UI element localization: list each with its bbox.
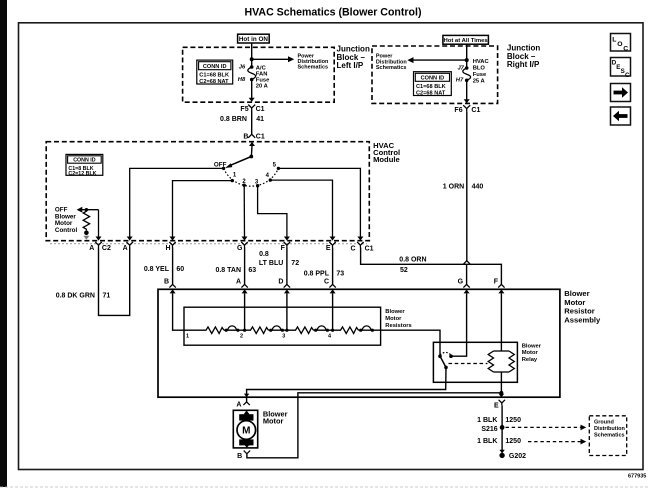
splice of ORN feed (chevron)	[463, 261, 470, 265]
wire E to ground	[501, 405, 503, 453]
svg-text:Right I/P: Right I/P	[507, 60, 540, 69]
switch dotted arc	[224, 168, 279, 186]
svg-text:Motor: Motor	[522, 350, 539, 356]
svg-text:3: 3	[282, 334, 285, 340]
svg-text:G: G	[237, 245, 243, 252]
module terminal connectors (Y symbols)	[95, 242, 363, 248]
label 1 BLK 1250 (upper)	[477, 417, 521, 424]
exit arrow E through assembly bottom	[499, 394, 505, 398]
wire contact 2 to terminal G	[243, 185, 245, 237]
svg-text:Resistor: Resistor	[564, 307, 594, 316]
svg-text:Relay: Relay	[522, 357, 538, 363]
svg-text:63: 63	[248, 267, 256, 274]
relay contact dotted travel arc	[440, 352, 451, 355]
Hot in ON box	[238, 34, 270, 43]
svg-text:0.8 TAN: 0.8 TAN	[215, 267, 241, 274]
motor M1 box	[233, 410, 257, 448]
label 1 BLK 1250 (lower)	[477, 438, 521, 445]
resistor pack box	[184, 307, 381, 345]
motor entry arrow at top edge	[244, 410, 250, 414]
relay NO contact dot	[449, 354, 453, 358]
wire splice down to assembly G	[466, 264, 468, 284]
wire C terminal to chain node 4	[332, 293, 334, 330]
scan edge black strip	[0, 0, 7, 487]
svg-text:CONN ID: CONN ID	[421, 76, 445, 82]
blower switch arm (points to OFF)	[225, 157, 251, 169]
svg-text:73: 73	[336, 270, 344, 277]
svg-text:E: E	[326, 245, 331, 252]
svg-text:1 ORN: 1 ORN	[443, 184, 464, 191]
svg-text:440: 440	[472, 184, 484, 191]
svg-text:60: 60	[176, 266, 184, 273]
resistor end dot	[84, 231, 89, 236]
svg-text:B: B	[243, 133, 248, 140]
svg-text:Ground: Ground	[594, 419, 614, 425]
svg-text:0.8: 0.8	[259, 251, 269, 258]
svg-text:C1: C1	[471, 107, 480, 114]
wire contact 3 to terminal F	[258, 186, 287, 238]
relay NC contact dot	[438, 354, 442, 358]
svg-text:A: A	[89, 245, 94, 252]
svg-text:HVAC Schematics (Blower Contro: HVAC Schematics (Blower Control)	[245, 6, 422, 18]
svg-text:C2=68 NAT: C2=68 NAT	[416, 90, 446, 96]
junction dot node 4	[331, 329, 334, 332]
resistor R3 (zigzag + limiter)	[287, 326, 333, 334]
wire chain end to relay NC contact	[381, 330, 440, 356]
svg-text:S216: S216	[481, 426, 497, 433]
relay mechanical dashed link	[449, 363, 488, 365]
svg-text:O: O	[617, 41, 622, 48]
svg-text:J7: J7	[457, 65, 464, 71]
svg-text:Schematics: Schematics	[298, 65, 329, 71]
wire A terminal to chain node 2	[244, 293, 246, 330]
node dot on sense branch	[85, 208, 88, 211]
motor exit arrow at bottom edge	[244, 444, 250, 448]
svg-text:H: H	[165, 245, 170, 252]
splice S216	[500, 425, 505, 430]
fuse A/C FAN 20A	[248, 65, 256, 81]
wire B terminal into resistor chain	[173, 293, 184, 330]
label 0.8 TAN 63	[215, 267, 256, 274]
svg-text:71: 71	[103, 293, 111, 300]
wire from Hot in ON down	[251, 43, 253, 67]
svg-text:Left I/P: Left I/P	[337, 61, 364, 70]
svg-text:1250: 1250	[505, 417, 521, 424]
label HVAC Control Module	[373, 141, 400, 164]
svg-text:A: A	[123, 245, 128, 252]
relay arm pivot dot	[444, 366, 448, 370]
connector at motor B (Y)	[244, 451, 250, 456]
svg-text:D: D	[278, 279, 283, 286]
wire F terminal down to coil top	[500, 293, 502, 351]
svg-text:C1: C1	[256, 106, 265, 113]
fuse HVAC BLO 25A	[463, 66, 471, 82]
svg-text:Motor: Motor	[263, 417, 284, 426]
exit arrow at right junction box bottom	[464, 99, 470, 103]
label 0.8 ORN 52	[399, 257, 426, 275]
svg-text:25 A: 25 A	[473, 78, 486, 84]
svg-text:Hot in ON: Hot in ON	[239, 36, 268, 43]
svg-text:F6: F6	[454, 107, 462, 114]
svg-text:0.8 BRN: 0.8 BRN	[220, 116, 247, 123]
label 0.8 BRN 41	[220, 116, 264, 123]
svg-text:BLO: BLO	[473, 65, 486, 71]
svg-text:LT BLU: LT BLU	[259, 260, 283, 267]
wire 0.8 PPL 73 (E to C)	[332, 248, 334, 285]
connector F6 C1	[454, 105, 480, 114]
svg-text:0.8 DK GRN: 0.8 DK GRN	[56, 293, 95, 300]
svg-text:0.8 YEL: 0.8 YEL	[144, 266, 170, 273]
svg-text:C2=12 BLK: C2=12 BLK	[68, 171, 96, 177]
svg-text:C: C	[623, 45, 628, 52]
wire coil bottom to E node	[500, 372, 502, 393]
label Power Distribution Schematics (left block)	[298, 54, 329, 71]
exit arrow motor feed through assembly bottom	[244, 394, 249, 398]
button LOC	[611, 34, 631, 53]
arrow to Power Distribution Schematics (left)	[407, 57, 466, 63]
wire motor return (B) to E node	[247, 393, 502, 458]
svg-text:Schematics: Schematics	[594, 432, 625, 438]
label A/C FAN Fuse 20 A	[256, 66, 270, 90]
wire NO contact to G feed	[451, 293, 467, 356]
wire sense branch to terminal A C2	[98, 210, 100, 238]
ground G202 arrow and dot	[499, 450, 504, 454]
label 0.8 PPL 73	[304, 270, 345, 277]
label 1 ORN 440	[443, 184, 484, 191]
junction dot node 3	[285, 329, 288, 332]
exit arrow at left junction box bottom	[249, 98, 255, 102]
wire 0.8 ORN 52 (module C to splice)	[361, 248, 467, 265]
svg-text:A: A	[236, 401, 241, 408]
svg-text:Fuse: Fuse	[473, 72, 487, 78]
wire 0.8 DK GRN 71 jumper A(C2) to A(C1)	[99, 248, 130, 316]
connector F5 C1	[240, 105, 264, 114]
wire fuse to box exit	[466, 80, 468, 99]
relay K1 box	[433, 342, 517, 382]
CONN ID box (left junction)	[197, 60, 233, 85]
svg-text:C2: C2	[102, 245, 111, 252]
label Blower Motor Resistor Assembly	[564, 289, 601, 324]
svg-text:L: L	[612, 37, 616, 44]
svg-text:Blower: Blower	[522, 344, 542, 350]
svg-text:C1=68 BLK: C1=68 BLK	[199, 73, 229, 79]
svg-text:C: C	[625, 72, 630, 79]
svg-text:E: E	[494, 402, 499, 409]
wire contact 4 to terminal E	[270, 180, 332, 237]
junction dot node 2	[243, 329, 246, 332]
module U1 dashed box	[46, 142, 369, 241]
svg-text:H7: H7	[456, 78, 464, 84]
arrow to Power Distribution Schematics (right)	[252, 56, 295, 62]
Hot at All Times box	[443, 35, 489, 44]
svg-text:0.8 PPL: 0.8 PPL	[304, 270, 330, 277]
entry arrow B C1 into module	[249, 142, 255, 146]
wire fuse to box exit	[251, 80, 253, 99]
label Junction Block - Left I/P	[337, 45, 370, 71]
connector at assembly E (Y)	[499, 400, 505, 406]
svg-text:G202: G202	[509, 453, 526, 460]
svg-text:HVAC: HVAC	[473, 59, 490, 65]
svg-text:Control: Control	[55, 227, 78, 234]
switch contact dots OFF,1,2,3,4,5	[222, 167, 280, 188]
module terminal letters	[89, 245, 373, 253]
CONN ID box (right junction)	[414, 72, 452, 97]
label Power Distribution Schematics (right block)	[376, 54, 407, 72]
button next arrow	[611, 84, 631, 102]
svg-text:C2=68 NAT: C2=68 NAT	[199, 79, 229, 85]
connector B C1 (module entry)	[243, 133, 265, 140]
dashed arrow S216 to ground schematics	[506, 425, 587, 431]
svg-text:C1: C1	[365, 246, 374, 253]
svg-text:2: 2	[240, 334, 243, 340]
svg-text:Blower: Blower	[385, 309, 405, 315]
label Blower Motor Relay	[522, 344, 542, 363]
svg-text:Distribution: Distribution	[594, 426, 625, 432]
wire 0.8 LT BLU 72 (F to D)	[286, 248, 288, 285]
svg-text:Assembly: Assembly	[564, 315, 601, 324]
svg-text:Module: Module	[373, 155, 400, 164]
svg-text:B: B	[237, 453, 242, 460]
module exit arrows at bottom edge	[96, 237, 364, 241]
module bottom edge connector strip (gray dotted)	[50, 243, 367, 245]
svg-text:B: B	[164, 279, 169, 286]
resistor R4 (zigzag + limiter)	[333, 326, 381, 334]
resistor R1 (zigzag + limiter)	[184, 326, 245, 334]
node E junction dot	[500, 391, 504, 395]
label OFF Blower Motor Control	[55, 207, 78, 234]
label 0.8 DK GRN 71	[56, 293, 111, 300]
CONN ID box (module)	[66, 154, 103, 177]
junction block right dashed box	[372, 46, 498, 103]
svg-text:M: M	[242, 426, 250, 437]
svg-text:1 BLK: 1 BLK	[477, 438, 497, 445]
label 0.8 YEL 60	[144, 266, 184, 273]
junction block left dashed box	[183, 47, 335, 102]
svg-text:52: 52	[400, 267, 408, 274]
node junction dot (right fuse feed)	[465, 58, 469, 62]
wire D terminal to chain node 3	[286, 293, 288, 330]
motor armature circle with M	[237, 421, 256, 440]
wire 0.8 TAN 63 (G to A)	[244, 248, 246, 285]
assembly top wire-end connectors (inverted V)	[169, 284, 504, 287]
wire 0.8 YEL 60 (H to B)	[172, 248, 174, 285]
svg-text:Motor: Motor	[385, 316, 402, 322]
svg-text:C: C	[351, 246, 356, 253]
button back arrow	[611, 107, 631, 125]
wire arrow to brush	[246, 413, 248, 415]
switch position labels 1-5	[233, 162, 277, 185]
resistor R2 (zigzag + limiter)	[245, 326, 287, 334]
svg-text:CONN ID: CONN ID	[73, 158, 96, 164]
assembly terminal letters	[164, 279, 499, 286]
svg-text:677935: 677935	[628, 474, 646, 480]
svg-text:G: G	[458, 279, 464, 286]
svg-text:Blower: Blower	[564, 289, 589, 298]
wire contact 1 to terminal H	[173, 181, 233, 238]
bottom scan dotted line	[0, 486, 650, 488]
motor brush block top	[239, 414, 253, 420]
wire relay arm to motor A feed	[247, 367, 446, 402]
Ground Distribution Schematics dashed box	[589, 416, 626, 456]
connector at motor A (inverted V)	[243, 402, 249, 405]
wire splice to assembly F	[467, 264, 502, 284]
svg-text:A: A	[236, 279, 241, 286]
svg-text:0.8 ORN: 0.8 ORN	[399, 257, 426, 264]
button DESC	[611, 58, 631, 80]
svg-text:H8: H8	[238, 77, 246, 83]
faded ground arrow under resistor	[83, 236, 89, 240]
svg-text:1 BLK: 1 BLK	[477, 417, 497, 424]
svg-text:C: C	[324, 279, 329, 286]
svg-text:J6: J6	[239, 65, 246, 71]
node junction dot (left fuse feed)	[250, 57, 254, 61]
svg-text:F: F	[494, 279, 499, 286]
wire OFF contact to terminal A	[130, 168, 224, 237]
svg-text:72: 72	[291, 260, 299, 267]
svg-text:1250: 1250	[505, 438, 521, 445]
wire contact 5 to terminal C	[278, 168, 360, 237]
svg-text:20 A: 20 A	[256, 83, 269, 89]
wire entry to switch pivot	[250, 146, 253, 157]
svg-text:C1: C1	[256, 133, 265, 140]
svg-text:C1=68 BLK: C1=68 BLK	[416, 84, 446, 90]
node labels 1 2 3 4	[186, 334, 332, 340]
wire from Hot at All Times down	[466, 44, 468, 68]
svg-text:CONN ID: CONN ID	[203, 64, 227, 70]
relay switch arm	[440, 356, 446, 367]
relay coil L1	[488, 351, 514, 372]
OFF blower motor control sense branch arrow	[77, 207, 99, 213]
svg-text:Schematics: Schematics	[376, 65, 407, 71]
dashed arrow lower BLK to ground schematics	[528, 439, 586, 445]
svg-text:F: F	[281, 245, 286, 252]
svg-text:F5: F5	[240, 106, 248, 113]
svg-text:Hot at All Times: Hot at All Times	[443, 38, 488, 44]
wire 0.8 BRN 41	[251, 111, 253, 134]
motor brush block bottom	[239, 439, 253, 445]
label Blower Motor Resistors	[385, 309, 411, 329]
label HVAC BLO Fuse 25 A	[473, 59, 490, 84]
blower switch S1 pivot	[249, 155, 253, 159]
resistor R-off (vertical zigzag)	[83, 210, 89, 231]
wire 1 ORN 440	[466, 112, 468, 261]
label 0.8 LT BLU 72	[259, 251, 299, 267]
assembly box	[158, 289, 560, 397]
assembly entry arrows at top edge	[170, 289, 505, 293]
svg-text:41: 41	[256, 116, 264, 123]
svg-text:1: 1	[186, 334, 189, 340]
svg-text:Resistors: Resistors	[385, 323, 411, 329]
label Blower Motor	[263, 409, 288, 425]
svg-text:Motor: Motor	[564, 298, 585, 307]
label Junction Block - Right I/P	[507, 44, 540, 70]
